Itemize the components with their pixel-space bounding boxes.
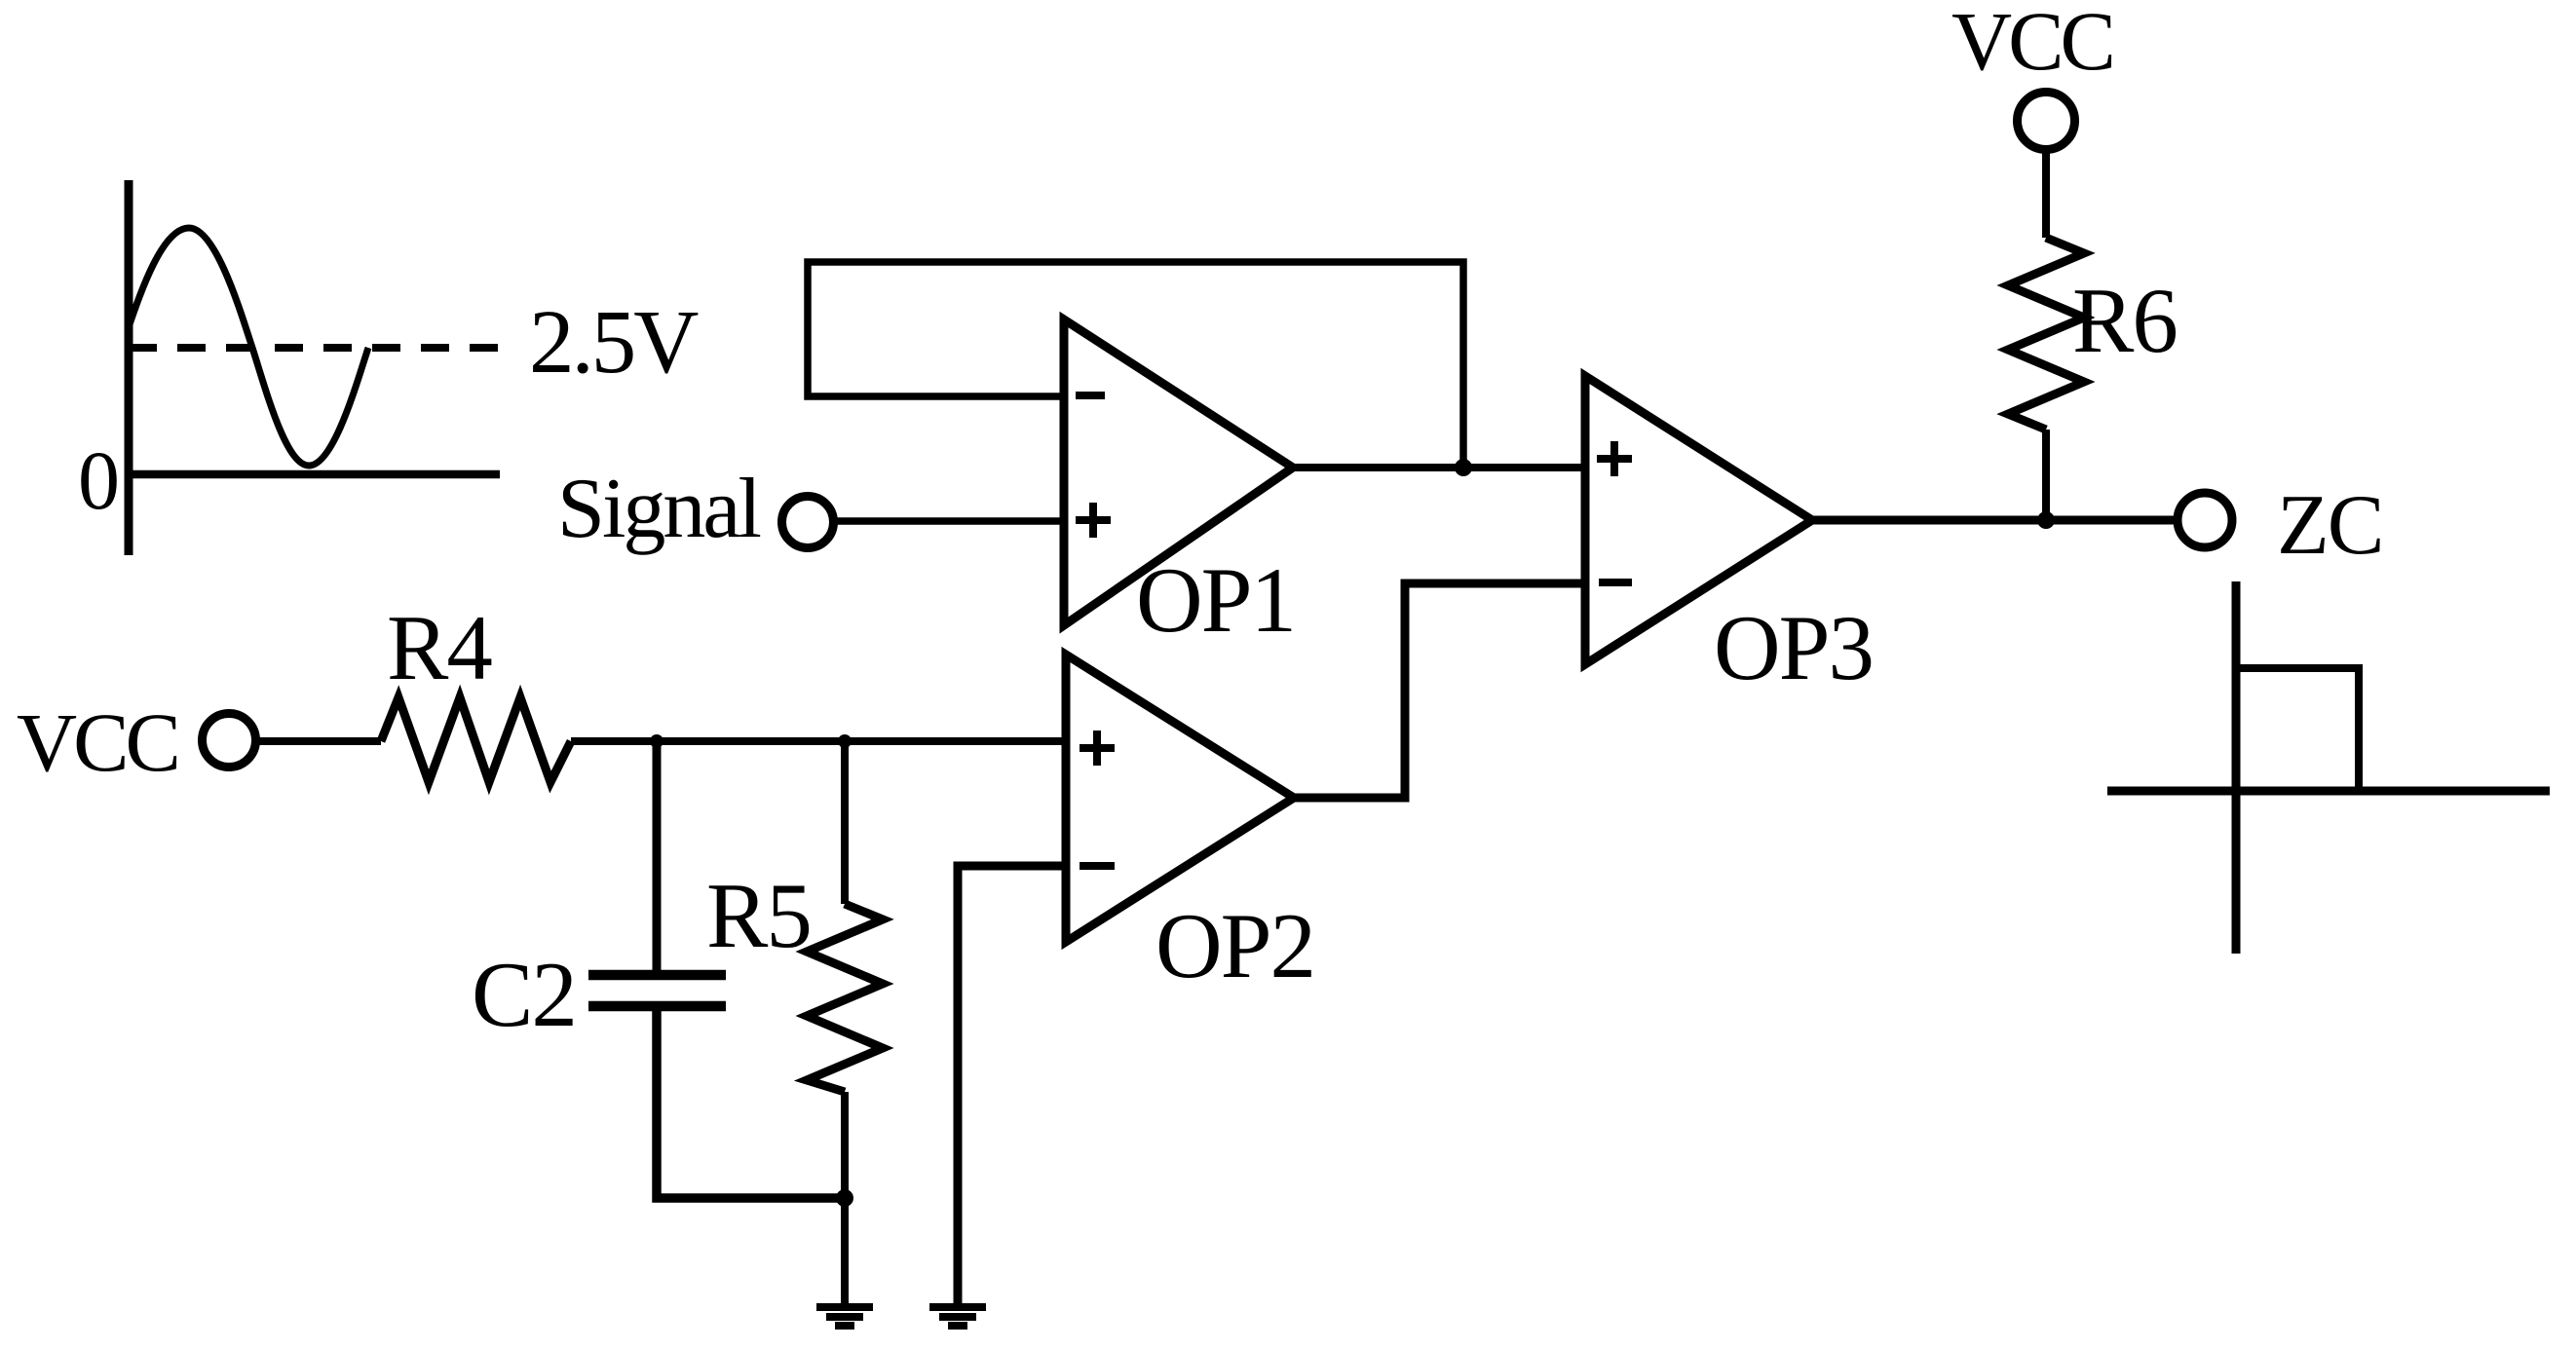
wire node A to C2: [653, 741, 662, 970]
resistor R5: [807, 904, 883, 1092]
wire R5 to ground: [841, 1092, 849, 1307]
svg-text:0: 0: [78, 433, 120, 527]
sine plot vertical axis: [125, 180, 133, 555]
node OP1 output junction: [1455, 459, 1472, 476]
svg-text:ZC: ZC: [2277, 478, 2382, 573]
svg-text:2.5V: 2.5V: [529, 292, 699, 393]
square wave icon horizontal axis: [2107, 787, 2550, 796]
wire OP1 output to OP3 +: [1290, 464, 1585, 471]
OP2 plus pin label: [1080, 731, 1115, 766]
square wave icon pulse: [2236, 668, 2359, 791]
svg-text:R4: R4: [387, 596, 492, 699]
terminal ZC: [2178, 493, 2232, 547]
svg-text:C2: C2: [472, 943, 576, 1046]
node A junction: [650, 734, 663, 748]
wire OP1 feedback loop: [808, 262, 1463, 468]
ground 2: [929, 1307, 986, 1326]
terminal Signal: [782, 497, 834, 548]
wire VCC to R4: [256, 737, 381, 745]
ground 1: [816, 1307, 873, 1326]
wire OP2 output to OP3 -: [1294, 583, 1585, 798]
node B junction: [838, 734, 852, 748]
svg-text:Signal: Signal: [557, 462, 760, 556]
OP2 minus pin label: [1080, 862, 1115, 870]
wire VCC to R6: [2042, 149, 2050, 238]
svg-text:OP2: OP2: [1155, 894, 1314, 997]
wire R4 to OP2 +: [571, 737, 1066, 745]
op-amp OP1: [1064, 319, 1293, 625]
wire OP3 output to ZC: [1812, 516, 2178, 525]
terminal VCC left: [203, 714, 256, 768]
node ZC junction: [2037, 511, 2055, 529]
sine plot horizontal axis: [125, 470, 500, 479]
svg-text:OP1: OP1: [1136, 548, 1295, 652]
op-amp OP3: [1585, 376, 1812, 664]
OP3 minus pin label: [1599, 579, 1632, 586]
node C junction: [836, 1189, 853, 1207]
capacitor C2: [588, 975, 726, 1006]
wire Signal to OP1 +: [835, 517, 1064, 525]
svg-text:OP3: OP3: [1714, 596, 1873, 699]
svg-text:R5: R5: [706, 864, 811, 967]
svg-text:R6: R6: [2072, 269, 2177, 372]
terminal VCC top: [2018, 93, 2075, 150]
OP3 plus pin label: [1597, 441, 1632, 476]
wire R6 to output node: [2042, 430, 2050, 520]
svg-text:VCC: VCC: [17, 695, 177, 789]
op-amp OP2: [1066, 655, 1294, 942]
svg-text:VCC: VCC: [1951, 0, 2112, 88]
sine waveform: [129, 228, 368, 466]
resistor R4: [381, 697, 571, 782]
2.5V dashed reference line: [129, 344, 508, 352]
resistor R6: [2008, 238, 2084, 430]
OP1 plus pin label: [1076, 503, 1111, 538]
wire C2 to bottom node: [657, 1011, 845, 1198]
wire OP2 - to ground: [958, 866, 1066, 1307]
OP1 minus pin label: [1076, 392, 1105, 399]
square wave icon vertical axis: [2232, 581, 2241, 954]
wire node B to R5: [841, 741, 849, 904]
